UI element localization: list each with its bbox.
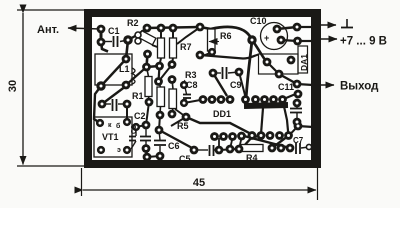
wire pad to L1 top pad: [126, 40, 128, 59]
output label: [340, 81, 379, 93]
svg-text:Ант.: Ант.: [37, 24, 59, 36]
wire R7a leads: [160, 28, 162, 38]
label R3: [185, 70, 197, 80]
node pad: [157, 24, 166, 33]
wire DD1 row end up right: [283, 93, 299, 100]
node pad C8 bottom: [180, 99, 188, 107]
svg-text:DD1: DD1: [213, 109, 231, 119]
wire ground pad to border: [297, 26, 313, 28]
capacitor C5 bars: [210, 145, 214, 156]
node pad ground: [293, 23, 302, 32]
node pad C11 top: [293, 99, 302, 108]
dimension 30 line: [22, 13, 24, 165]
capacitor C1 bars: [114, 36, 118, 47]
wire via to pad: [137, 28, 147, 35]
node pad: [294, 90, 303, 99]
capacitor C9 bars: [223, 67, 227, 79]
node pad: [168, 60, 177, 69]
wire R5 big diagonal: [159, 130, 194, 149]
wire pad to L1 corner: [101, 42, 108, 52]
wire DD1 row to bottom pads: [218, 138, 220, 150]
resistor R7 body B: [170, 38, 177, 58]
wire big arc to C10 pad: [211, 27, 252, 40]
wire C11 leads: [296, 103, 298, 108]
svg-text:30: 30: [7, 80, 19, 92]
node pad: [182, 113, 191, 122]
node pad: [97, 38, 106, 47]
svg-text:C10: C10: [250, 16, 267, 26]
svg-text:R7: R7: [180, 42, 192, 52]
wire C7 lead: [290, 147, 294, 149]
label C8: [181, 80, 198, 90]
wire R6 bottom lead: [211, 51, 212, 52]
wire C3 pad to C4 pad: [136, 125, 146, 127]
power wire arrow: [321, 38, 337, 40]
via donut C7 right: [306, 144, 311, 149]
resistor Ra body: [145, 77, 152, 97]
node pad: [235, 145, 244, 154]
node antenna pad: [97, 25, 106, 34]
capacitor C7 bars: [296, 143, 300, 154]
dimension 45 line: [83, 189, 316, 191]
ground wire arrow: [321, 24, 336, 26]
wire mid column: [147, 54, 148, 67]
node pad C2 left: [98, 100, 107, 109]
node pad R1 bottom: [156, 111, 165, 120]
node pad VT1 e1: [97, 146, 105, 154]
svg-text:+: +: [264, 33, 269, 43]
wire pad row top: [147, 27, 200, 28]
svg-text:C11: C11: [278, 82, 294, 92]
svg-text:+7 ... 9 В: +7 ... 9 В: [340, 36, 387, 48]
svg-text:э: э: [117, 147, 121, 154]
node pad bottom left: [142, 144, 151, 153]
pad holes: [99, 26, 300, 159]
wire C6 leads: [159, 130, 160, 140]
resistor R4 body: [241, 145, 263, 152]
wire pad to C4: [146, 102, 149, 125]
output wire arrow: [310, 84, 334, 86]
antenna label: [37, 24, 59, 36]
bottom right cluster row2: [268, 144, 277, 153]
svg-text:L1: L1: [119, 64, 130, 74]
svg-text:C7: C7: [293, 136, 304, 145]
capacitor C2 bars: [113, 99, 117, 111]
svg-text:DA1: DA1: [299, 54, 309, 71]
label R2: [127, 18, 139, 28]
wire diagonal to top row: [177, 28, 199, 44]
wire bottom row right: [219, 149, 239, 150]
node pad C11 bottom: [293, 118, 302, 127]
label C1: [108, 26, 120, 36]
wire C3 leads: [135, 127, 137, 136]
svg-text:R2: R2: [127, 18, 139, 28]
wire C1 right lead: [120, 40, 128, 42]
svg-text:C5: C5: [179, 154, 191, 164]
svg-text:R3: R3: [185, 70, 197, 80]
label L1: [119, 64, 130, 74]
label C3: [131, 125, 138, 134]
node pad: [226, 145, 235, 154]
wire output pad to border: [297, 84, 313, 85]
label C6: [168, 141, 180, 151]
via donut B: [135, 38, 141, 44]
wire DA1 box diagonal: [267, 62, 279, 74]
wire C9 leads: [213, 72, 221, 74]
wire C9 pads to DD1 row: [213, 73, 227, 96]
wire R1 pad down: [159, 115, 160, 130]
wire R7b leads: [172, 28, 174, 38]
label R4: [246, 153, 258, 163]
label C11: [278, 82, 294, 92]
wire C10 bottom to power pad: [281, 40, 298, 41]
node pad C9 left: [209, 69, 218, 78]
label R7: [180, 42, 192, 52]
svg-text:б: б: [116, 122, 121, 130]
resistor R1 body: [157, 87, 165, 107]
wire antenna pad pair: [100, 29, 103, 42]
wire band to bottom row: [261, 108, 263, 134]
label R5: [177, 121, 189, 131]
wire R2 lower diagonal: [152, 45, 160, 48]
capacitor C3 bars: [129, 137, 136, 141]
DD1 bottom row pads: [210, 132, 219, 141]
node pad: [145, 98, 154, 107]
wire Rb leads: [159, 82, 161, 88]
wire DD1 mid trace: [186, 117, 257, 137]
node pad output: [293, 80, 302, 89]
wire mid diagonals: [159, 65, 173, 82]
wire C8 leads: [185, 85, 187, 94]
wire C2 to VT1: [126, 104, 128, 122]
label C7: [293, 136, 304, 145]
svg-text:R6: R6: [220, 31, 232, 41]
node pad C10 top: [273, 25, 282, 34]
node pad C2 right: [123, 100, 132, 109]
node pad VT1 b: [123, 118, 131, 126]
antenna wire with arrow: [68, 28, 101, 29]
dimension label 30: [7, 80, 19, 92]
wire long trace to DA1 body: [200, 55, 259, 59]
wire C7 top pads: [289, 126, 299, 136]
svg-text:R4: R4: [246, 153, 258, 163]
DD1 top row pads: [199, 95, 208, 104]
svg-text:C6: C6: [168, 141, 180, 151]
resistor R2 body (diagonal): [138, 31, 156, 45]
resistor R3 body: [169, 89, 177, 109]
node pad C5 left: [190, 146, 199, 155]
wire left column down: [94, 86, 101, 123]
resistor R6 body: [208, 29, 216, 51]
node pad DA1 box a: [263, 58, 272, 67]
node pad R6 bottom: [208, 48, 216, 56]
node pad VT1 k: [96, 119, 104, 127]
node pad VT1 e2: [123, 146, 131, 154]
label C9: [230, 80, 242, 90]
node pad: [196, 51, 205, 60]
op-amp DA1 label box: [298, 46, 308, 73]
wire C8 pad to DD1 row: [184, 100, 203, 104]
label VT1: [102, 132, 119, 142]
wire node B to via: [128, 35, 137, 40]
wire pad diagonal to C2: [102, 86, 126, 104]
wire bottom right X cluster: [244, 136, 290, 148]
node pad DA1 box b: [287, 56, 296, 65]
node pad L1 bottom: [122, 81, 131, 90]
wire pad to border: [298, 126, 313, 127]
dimension 30 extension line bottom: [17, 165, 85, 167]
wire C10 pad to DA1 box pad: [252, 40, 266, 61]
label C10: [250, 16, 267, 26]
wire C4 leads: [145, 125, 147, 136]
wire bottom left pad pair: [146, 149, 147, 158]
node pad C8 top: [180, 81, 188, 89]
svg-text:C3: C3: [131, 125, 138, 134]
wire bottom row left: [147, 156, 160, 157]
node pad C3 top: [132, 123, 140, 131]
wire Rc leads: [172, 80, 173, 90]
wire C2 bars leads: [102, 103, 111, 105]
node pad big: [247, 35, 256, 44]
node pad C4 top: [142, 121, 151, 130]
transistor VT1 box: [94, 117, 132, 157]
dimension 30 extension line top: [17, 9, 85, 11]
node pad: [196, 23, 205, 32]
ground symbol: [341, 19, 353, 28]
wire output pad left: [279, 74, 297, 84]
capacitor C11 bars: [290, 109, 302, 113]
label C2: [134, 111, 146, 121]
node pad C1 right: [123, 35, 133, 45]
wire L1 diagonal: [101, 59, 126, 86]
wire C1 left lead: [101, 41, 112, 43]
svg-text:R1: R1: [132, 91, 144, 101]
node pad C10 bottom: [277, 36, 286, 45]
node pad mid left: [155, 126, 164, 135]
wire power pad to border: [298, 40, 314, 42]
inductor L1 box: [95, 54, 135, 85]
node pad: [294, 122, 303, 131]
wire DD1 top row bus band: [244, 105, 288, 106]
dimension 45 extension line left: [81, 168, 83, 196]
wire C10 pad down: [246, 40, 252, 99]
node pad power: [293, 37, 302, 46]
wire diagonal pad: [171, 117, 186, 126]
wire C5 leads: [194, 149, 208, 151]
svg-text:C1: C1: [108, 26, 120, 36]
node pad C5 right: [215, 146, 224, 155]
node pad: [142, 63, 151, 72]
node pad C6 bottom: [156, 152, 165, 161]
svg-text:C2: C2: [134, 111, 146, 121]
label C5: [179, 154, 191, 164]
dimension label 45: [193, 177, 205, 189]
capacitor C8 bars: [183, 95, 191, 99]
wire Ra leads: [147, 67, 149, 77]
wire C10 top to ground pad: [277, 27, 297, 29]
wire Rc to pad: [175, 109, 186, 117]
capacitor C4 bars: [140, 137, 151, 141]
node pad: [143, 24, 152, 33]
node pad bottom left 2: [143, 153, 152, 162]
svg-text:к: к: [108, 122, 112, 129]
svg-text:Выход: Выход: [340, 81, 379, 93]
node pad: [154, 77, 163, 86]
node pad C9 right: [235, 68, 244, 77]
wire DD1 right down: [283, 100, 289, 137]
svg-text:45: 45: [193, 177, 205, 189]
node pad: [143, 50, 152, 59]
op-amp DA1 body outline: [259, 54, 299, 74]
wire top row to R6: [200, 27, 211, 29]
node pad DA1 box c: [275, 70, 284, 79]
capacitor C6 bars: [154, 141, 166, 146]
node pad: [155, 62, 164, 71]
board outline: [88, 9, 321, 168]
dimension 45 extension line right: [317, 168, 319, 200]
node pad R3 bottom: [168, 110, 177, 119]
capacitor C10 outline: [261, 23, 288, 50]
via donut A: [135, 32, 141, 38]
label R6: [209, 31, 232, 42]
svg-text:C9: C9: [230, 80, 242, 90]
label VT1 pins: [108, 122, 121, 154]
wire L1 pad to pad cluster: [126, 67, 147, 85]
svg-text:C8: C8: [186, 80, 198, 90]
svg-text:VT1: VT1: [102, 132, 119, 142]
node pad L1 top: [122, 55, 131, 64]
power label +7...9V: [340, 36, 387, 48]
label DA1: [299, 54, 309, 71]
node pad: [168, 75, 177, 84]
node pad: [169, 24, 178, 33]
label R1: [132, 91, 144, 101]
label DD1: [213, 109, 231, 119]
svg-text:R5: R5: [177, 121, 189, 131]
node pad L1 bottom left: [96, 81, 105, 90]
resistor R7 body A: [158, 38, 165, 58]
